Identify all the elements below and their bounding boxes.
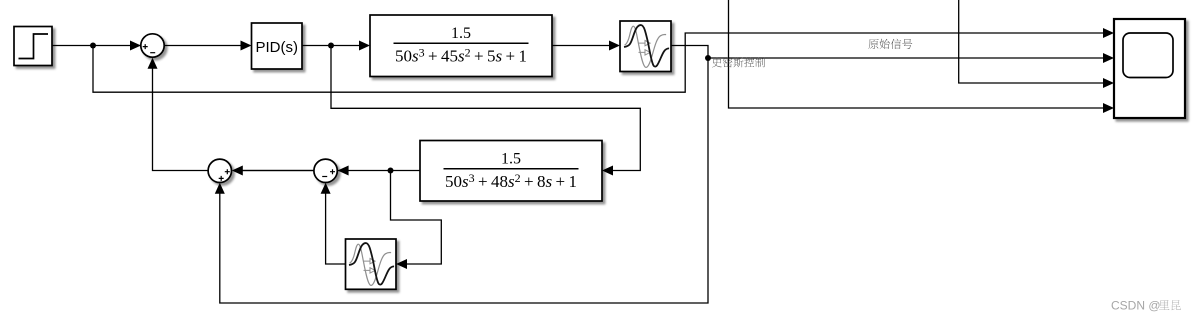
node: junction dot on step output (original signal tap) (90, 43, 96, 49)
block: Step source (14, 27, 52, 66)
op-amp: Sum3 (+/-) circle (314, 159, 337, 182)
svg-text:PID(s): PID(s) (255, 39, 298, 56)
arrowhead into Sum2 bottom (215, 183, 225, 194)
wire: Transfer Fcn 1 output to Transport Delay 1 (552, 45, 611, 47)
wire: smith control feedback down and to Sum2 bottom (220, 58, 708, 303)
arrowhead into Transport Delay 1 (609, 41, 620, 51)
svg-text:50s3 + 48s2 + 8s + 1: 50s3 + 48s2 + 8s + 1 (445, 171, 577, 191)
wire: Sum2 output to Sum1 bottom minus input (153, 68, 208, 171)
block: Transport Delay 1 (620, 21, 671, 72)
node: junction dot on Transfer Fcn 2 output (388, 168, 394, 174)
wire: Step output to Sum1 (52, 45, 140, 47)
wire: PID output tap down to Transfer Fcn 2 (model branch) (331, 46, 640, 171)
svg-text:1.5: 1.5 (501, 151, 521, 168)
block: PID(s) controller (252, 23, 303, 69)
arrowhead into Transport Delay 2 right side (396, 259, 407, 269)
arrowhead into Sum3 right (338, 166, 349, 176)
wire: tap down to Transport Delay 2 (391, 171, 442, 265)
svg-text:CSDN @: CSDN @ (1111, 298, 1161, 312)
arrowhead into Scope input 1 (1103, 28, 1114, 38)
block: Transfer Fcn 2 1.5/(50s^3+48s^2+8s+1) (420, 141, 602, 202)
wire: original signal feed to Scope input 1 (93, 33, 1105, 92)
node: junction dot smith control (705, 55, 711, 61)
block: Scope with 4 inputs (1114, 19, 1185, 118)
wire: Scope input 3 from top edge (959, 0, 1105, 83)
arrowhead into Transfer Fcn 1 (359, 41, 370, 51)
wire: PID(s) output to Transfer Fcn 1 (302, 45, 361, 47)
arrowhead into Sum1 left (130, 41, 141, 51)
arrowhead into Sum2 right (232, 166, 243, 176)
label: watermark CSDN @里昆 (1111, 298, 1181, 312)
arrowhead into Scope input 4 (1103, 103, 1114, 113)
wire: Transport Delay 2 output to Sum3 bottom (326, 193, 346, 264)
arrowhead into Scope input 2 (1103, 53, 1114, 63)
wire: Transport Delay 1 output to Scope input 2 (smith control) (671, 46, 1105, 59)
label: 原始信号 (original signal) (868, 39, 912, 49)
arrowhead into PID(s) (241, 41, 252, 51)
op-amp: Sum2 (+/+) circle (208, 159, 231, 182)
wire: Sum1 output to PID(s) (165, 45, 242, 47)
block: Transport Delay 2 (346, 239, 397, 289)
wire: Sum3 output to Sum2 (242, 170, 314, 172)
arrowhead into Sum1 bottom (148, 58, 158, 69)
arrowhead into Sum3 bottom (321, 183, 331, 194)
wire: Transfer Fcn 2 output to Sum3 (242, 170, 420, 172)
wire: Scope input 4 from top edge (729, 0, 1106, 108)
op-amp: Sum1 (+/-) circle (141, 34, 164, 57)
svg-text:1.5: 1.5 (451, 25, 471, 42)
label: 史密斯控制 (smith control) (712, 57, 765, 67)
block: Transfer Fcn 1 1.5/(50s^3+45s^2+5s+1) (370, 15, 552, 77)
arrowhead into Scope input 3 (1103, 78, 1114, 88)
svg-text:50s3 + 45s2 + 5s + 1: 50s3 + 45s2 + 5s + 1 (395, 46, 527, 66)
node: junction dot on PID output (328, 43, 334, 49)
arrowhead into Transfer Fcn 2 right side (602, 166, 613, 176)
